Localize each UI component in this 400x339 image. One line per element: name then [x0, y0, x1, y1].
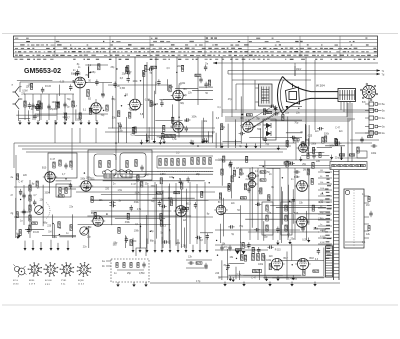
wire: [314, 228, 330, 230]
value label: [265, 144, 270, 146]
wire feed 3: [155, 57, 157, 85]
resistor: [339, 154, 345, 156]
value label: [258, 191, 263, 193]
svg-text:330k: 330k: [118, 130, 124, 132]
wire: [175, 199, 177, 246]
wire: [221, 212, 293, 214]
wire: [48, 94, 50, 120]
value label: [151, 105, 157, 107]
resistor: [129, 112, 131, 118]
value label: [151, 201, 156, 203]
resistor: [160, 214, 162, 220]
capacitor: [33, 200, 36, 206]
value label: [140, 114, 144, 116]
resistor: [240, 197, 246, 199]
resistor: [94, 212, 96, 218]
value label: [215, 273, 220, 275]
resistor: [322, 137, 324, 143]
value label: [205, 93, 208, 95]
value label: [45, 86, 52, 88]
value label: [322, 230, 327, 232]
resistor: [156, 192, 162, 194]
resistor: [134, 127, 136, 133]
wire: [264, 255, 266, 279]
value label: [23, 175, 28, 177]
wire: [71, 214, 73, 238]
ground: [307, 238, 310, 243]
ground: [146, 138, 149, 143]
value label: [78, 67, 81, 69]
stub label: [320, 236, 326, 238]
value label: [293, 279, 298, 281]
value label: [291, 179, 294, 181]
resistor: [368, 135, 373, 137]
small tube B9: [247, 181, 258, 188]
wire: [101, 193, 162, 195]
value label: [40, 199, 45, 201]
resistor: [181, 183, 183, 189]
junction: [115, 142, 117, 144]
wire: [249, 168, 251, 240]
socket caption: [78, 280, 84, 282]
resistor: [286, 141, 288, 147]
svg-text:100k: 100k: [168, 198, 174, 200]
junction: [282, 177, 283, 178]
capacitor: [255, 203, 261, 206]
resistor: [130, 240, 132, 246]
tube B13: [174, 206, 189, 217]
resistor: [349, 154, 355, 156]
resistor: [266, 225, 268, 231]
capacitor C3: [101, 92, 104, 98]
junction: [173, 177, 174, 178]
resistor: [89, 108, 91, 114]
value label: [60, 81, 65, 83]
wire: [287, 116, 289, 148]
elco C92: [262, 254, 265, 261]
wire: [59, 85, 61, 96]
capacitor: [22, 193, 25, 199]
resistor: [70, 225, 72, 231]
value label: [303, 169, 306, 171]
svg-text:0,25: 0,25: [308, 136, 313, 138]
svg-text:B18: B18: [310, 257, 315, 260]
wire: [175, 87, 198, 89]
value label: [150, 73, 153, 75]
ground: [232, 277, 235, 282]
coil L1: [87, 90, 90, 97]
value label: [298, 261, 303, 263]
ground: [292, 275, 295, 280]
wire feed r2: [314, 60, 316, 130]
wire: [136, 177, 138, 200]
value label: [37, 187, 40, 189]
value label: [296, 176, 301, 178]
resistor: [195, 74, 201, 76]
wire: [323, 248, 325, 277]
resistor: [282, 115, 284, 121]
svg-text:2f: 2f: [11, 194, 13, 197]
wire feed 1: [115, 57, 117, 143]
trimmer: [129, 171, 132, 174]
value label: [291, 238, 296, 240]
junction: [106, 213, 107, 214]
value label: [161, 100, 165, 102]
value label: [218, 107, 222, 109]
value label: [150, 102, 155, 104]
connector J5: [365, 131, 385, 135]
wire: [161, 184, 163, 244]
wire base pin 3: [346, 102, 348, 117]
value label: [180, 83, 186, 85]
wire: [292, 189, 294, 224]
ground: [223, 282, 226, 287]
return arrow: [199, 237, 202, 252]
table text rows: [15, 37, 377, 55]
value label: [251, 278, 257, 280]
value label: [133, 81, 139, 83]
value label: [135, 193, 141, 195]
wire: [263, 221, 265, 241]
dial arc: [46, 203, 50, 219]
value label: [118, 190, 123, 192]
return arrow: [177, 239, 180, 253]
wire crt top rail: [232, 79, 311, 81]
value label: [316, 160, 321, 163]
value label: [86, 227, 91, 229]
wire: [103, 180, 205, 182]
wire: [49, 171, 51, 194]
resistor R4: [106, 105, 108, 111]
value label: [174, 125, 178, 127]
wire diag 2: [252, 110, 283, 128]
value label: [288, 278, 294, 280]
value label: [166, 68, 170, 70]
junction: [65, 178, 66, 179]
capacitor: [292, 197, 295, 203]
ground: [132, 282, 135, 287]
capacitor: [125, 237, 128, 243]
resistor: [356, 164, 361, 166]
junction: [292, 264, 293, 265]
tube B18: [295, 258, 310, 269]
wire: [276, 206, 326, 208]
wire: [106, 260, 111, 262]
wire: [325, 145, 345, 147]
value label: [176, 152, 180, 155]
ground: [299, 157, 302, 162]
junction: [66, 119, 67, 120]
resistor: [266, 111, 272, 113]
resistor: [16, 174, 18, 180]
potentiometer volume: [35, 206, 44, 215]
value label: [218, 278, 221, 280]
wire: [258, 269, 260, 280]
wire sync rail2: [240, 167, 332, 169]
label 2g: [11, 212, 14, 215]
label 2e: [11, 176, 14, 179]
socket caption: [29, 280, 35, 282]
wire feed 2: [134, 57, 136, 99]
diode box: [263, 119, 276, 140]
connector J1: [365, 102, 385, 106]
wire stub: [364, 216, 369, 218]
svg-text:330k: 330k: [263, 125, 269, 127]
wire: [259, 164, 330, 166]
resistor: [266, 215, 268, 221]
label W 204: [316, 84, 325, 88]
socket S5: [77, 262, 92, 277]
ground: [191, 140, 194, 145]
wire rf mid: [24, 93, 74, 95]
ground: [144, 282, 147, 287]
svg-text:4 17 9: 4 17 9: [29, 284, 36, 286]
value label: [77, 120, 83, 122]
junction: [178, 117, 179, 118]
value label: [86, 178, 92, 180]
wire long bus3: [14, 216, 213, 218]
wire long bus4: [90, 199, 332, 201]
value label: [111, 67, 116, 69]
junction: [248, 176, 249, 177]
wire if bus: [108, 84, 172, 86]
svg-text:100k: 100k: [320, 188, 324, 190]
tube B15: [295, 181, 310, 192]
wire: [240, 205, 242, 243]
small box: [357, 151, 367, 158]
value label: [335, 157, 340, 159]
capacitor: [247, 242, 250, 248]
wire: [266, 167, 280, 169]
capacitor: [317, 248, 320, 254]
junction: [242, 114, 243, 115]
label B10: [42, 167, 47, 170]
svg-text:1M: 1M: [48, 232, 51, 234]
wire long bus5: [215, 229, 300, 231]
junction: [84, 172, 85, 173]
wire: [317, 147, 332, 149]
wire: [295, 213, 330, 215]
value label: [63, 114, 68, 116]
wire: [294, 168, 296, 240]
ground: [313, 282, 316, 287]
resistor: [313, 270, 319, 272]
value label: [222, 244, 227, 246]
value label: [267, 213, 272, 215]
value label: [50, 158, 56, 161]
svg-text:330k: 330k: [45, 192, 51, 194]
wire: [235, 267, 237, 280]
resistor: [30, 83, 32, 89]
svg-text:330k: 330k: [313, 228, 319, 230]
resistor: [269, 264, 271, 270]
resistor: [221, 169, 223, 175]
junction: [155, 104, 156, 105]
svg-text:330k: 330k: [125, 222, 131, 224]
wire: [24, 94, 26, 120]
wire: [221, 196, 223, 209]
resistor: [59, 160, 61, 166]
value label: [296, 113, 301, 115]
resistor: [228, 185, 230, 191]
stub label: [320, 170, 323, 172]
wire: [212, 131, 214, 143]
value label: [301, 185, 306, 187]
resistor: [165, 159, 167, 166]
terminal dots: [158, 170, 214, 173]
wire: [223, 141, 242, 143]
value label: [274, 270, 279, 272]
value label: [132, 241, 137, 243]
resistor: [209, 158, 211, 165]
table separator: [247, 36, 249, 57]
junction: [216, 240, 217, 241]
wire edge b: [350, 139, 379, 141]
resistor: [132, 127, 134, 133]
coil: [99, 161, 101, 168]
resistor: [127, 213, 129, 219]
wire: [52, 215, 54, 239]
value label: [169, 87, 174, 89]
wire rf drop: [19, 82, 21, 92]
wire: [106, 265, 111, 267]
wire: [286, 132, 302, 134]
value label: [256, 119, 261, 121]
resistor: [150, 101, 152, 107]
value label: [308, 136, 313, 138]
value label: [315, 131, 320, 133]
svg-text:220: 220: [316, 160, 321, 163]
resistor: [311, 178, 313, 184]
arrowhead 17a: [377, 69, 380, 72]
value label: [228, 99, 233, 101]
stub label: [320, 212, 324, 214]
return arrow: [161, 237, 164, 253]
svg-text:330k: 330k: [134, 202, 140, 204]
junction: [202, 192, 203, 193]
wire: [227, 124, 229, 148]
resistor: [284, 162, 290, 164]
value label: [218, 202, 221, 204]
return arrow: [169, 240, 172, 253]
value label: [180, 182, 185, 184]
tube B3: [128, 99, 143, 110]
wire feed v1: [221, 57, 223, 117]
value label: [160, 136, 165, 138]
resistor: [231, 176, 233, 182]
wire yoke frame: [235, 84, 237, 110]
capacitor: [69, 183, 72, 189]
shield box 2: [88, 150, 152, 180]
table separator: [204, 36, 206, 57]
wire: [155, 82, 157, 95]
resistor: [19, 230, 21, 236]
wire: [234, 140, 236, 148]
wire: [186, 267, 208, 269]
ground: [203, 138, 206, 143]
svg-text:0,5M: 0,5M: [120, 88, 125, 90]
wire: [95, 99, 97, 103]
wire bus B: [18, 145, 291, 147]
svg-text:330k: 330k: [77, 120, 83, 122]
capacitor: [159, 136, 165, 139]
junction: [298, 108, 299, 109]
resistor: [302, 142, 304, 148]
wire stub: [318, 243, 332, 245]
wire: [23, 185, 25, 225]
value label: [113, 245, 118, 247]
value label: [92, 72, 97, 74]
tube B12: [91, 216, 105, 226]
wire rf top: [20, 81, 77, 83]
wire bus h5: [225, 120, 350, 122]
capacitor: [89, 106, 92, 112]
ground: [18, 120, 21, 125]
wire: [340, 146, 342, 160]
value label: [117, 86, 120, 88]
wire pair2: [151, 66, 153, 140]
return arrow: [67, 240, 70, 250]
wire drop L: [13, 143, 15, 168]
potentiometer contrast: [80, 227, 88, 235]
wire: [281, 191, 283, 224]
wire bus h3: [225, 116, 347, 118]
junction: [140, 226, 141, 227]
capacitor: [264, 137, 267, 143]
wire: [305, 211, 307, 240]
resistor: [235, 249, 241, 251]
junction: [150, 231, 151, 232]
rectifier plate: [236, 251, 240, 254]
svg-text:100k: 100k: [86, 178, 92, 180]
svg-text:330k: 330k: [311, 144, 317, 146]
resistor: [116, 263, 118, 268]
value label: [311, 144, 317, 146]
wire: [199, 86, 213, 88]
wire if bus3: [105, 131, 215, 133]
wire plate: [85, 82, 112, 84]
wire hv 2: [351, 103, 353, 162]
svg-text:1M: 1M: [303, 169, 306, 171]
capacitor: [84, 186, 90, 189]
svg-text:1M: 1M: [320, 170, 323, 172]
value label: [169, 177, 174, 179]
tube B5: [171, 122, 185, 132]
svg-text:15k: 15k: [320, 200, 323, 202]
wire feed v2: [231, 57, 233, 80]
junction: [226, 269, 227, 270]
capacitor: [229, 161, 232, 167]
junction: [209, 182, 210, 183]
capacitor: [312, 153, 315, 159]
value label: [89, 109, 94, 111]
label B5: [185, 120, 189, 123]
stub label: [320, 188, 324, 190]
value label: [152, 104, 159, 106]
return arrow: [185, 244, 188, 252]
table rule: [14, 42, 378, 44]
wire feed v3: [242, 57, 244, 122]
svg-text:11 b 4: 11 b 4: [78, 284, 85, 286]
table separator: [109, 36, 111, 57]
wire: [204, 182, 206, 244]
resistor: [233, 170, 235, 176]
wire bus C: [22, 148, 287, 150]
value label: [293, 142, 300, 144]
wire: [18, 110, 20, 121]
capacitor: [130, 205, 133, 211]
wire: [196, 184, 198, 244]
